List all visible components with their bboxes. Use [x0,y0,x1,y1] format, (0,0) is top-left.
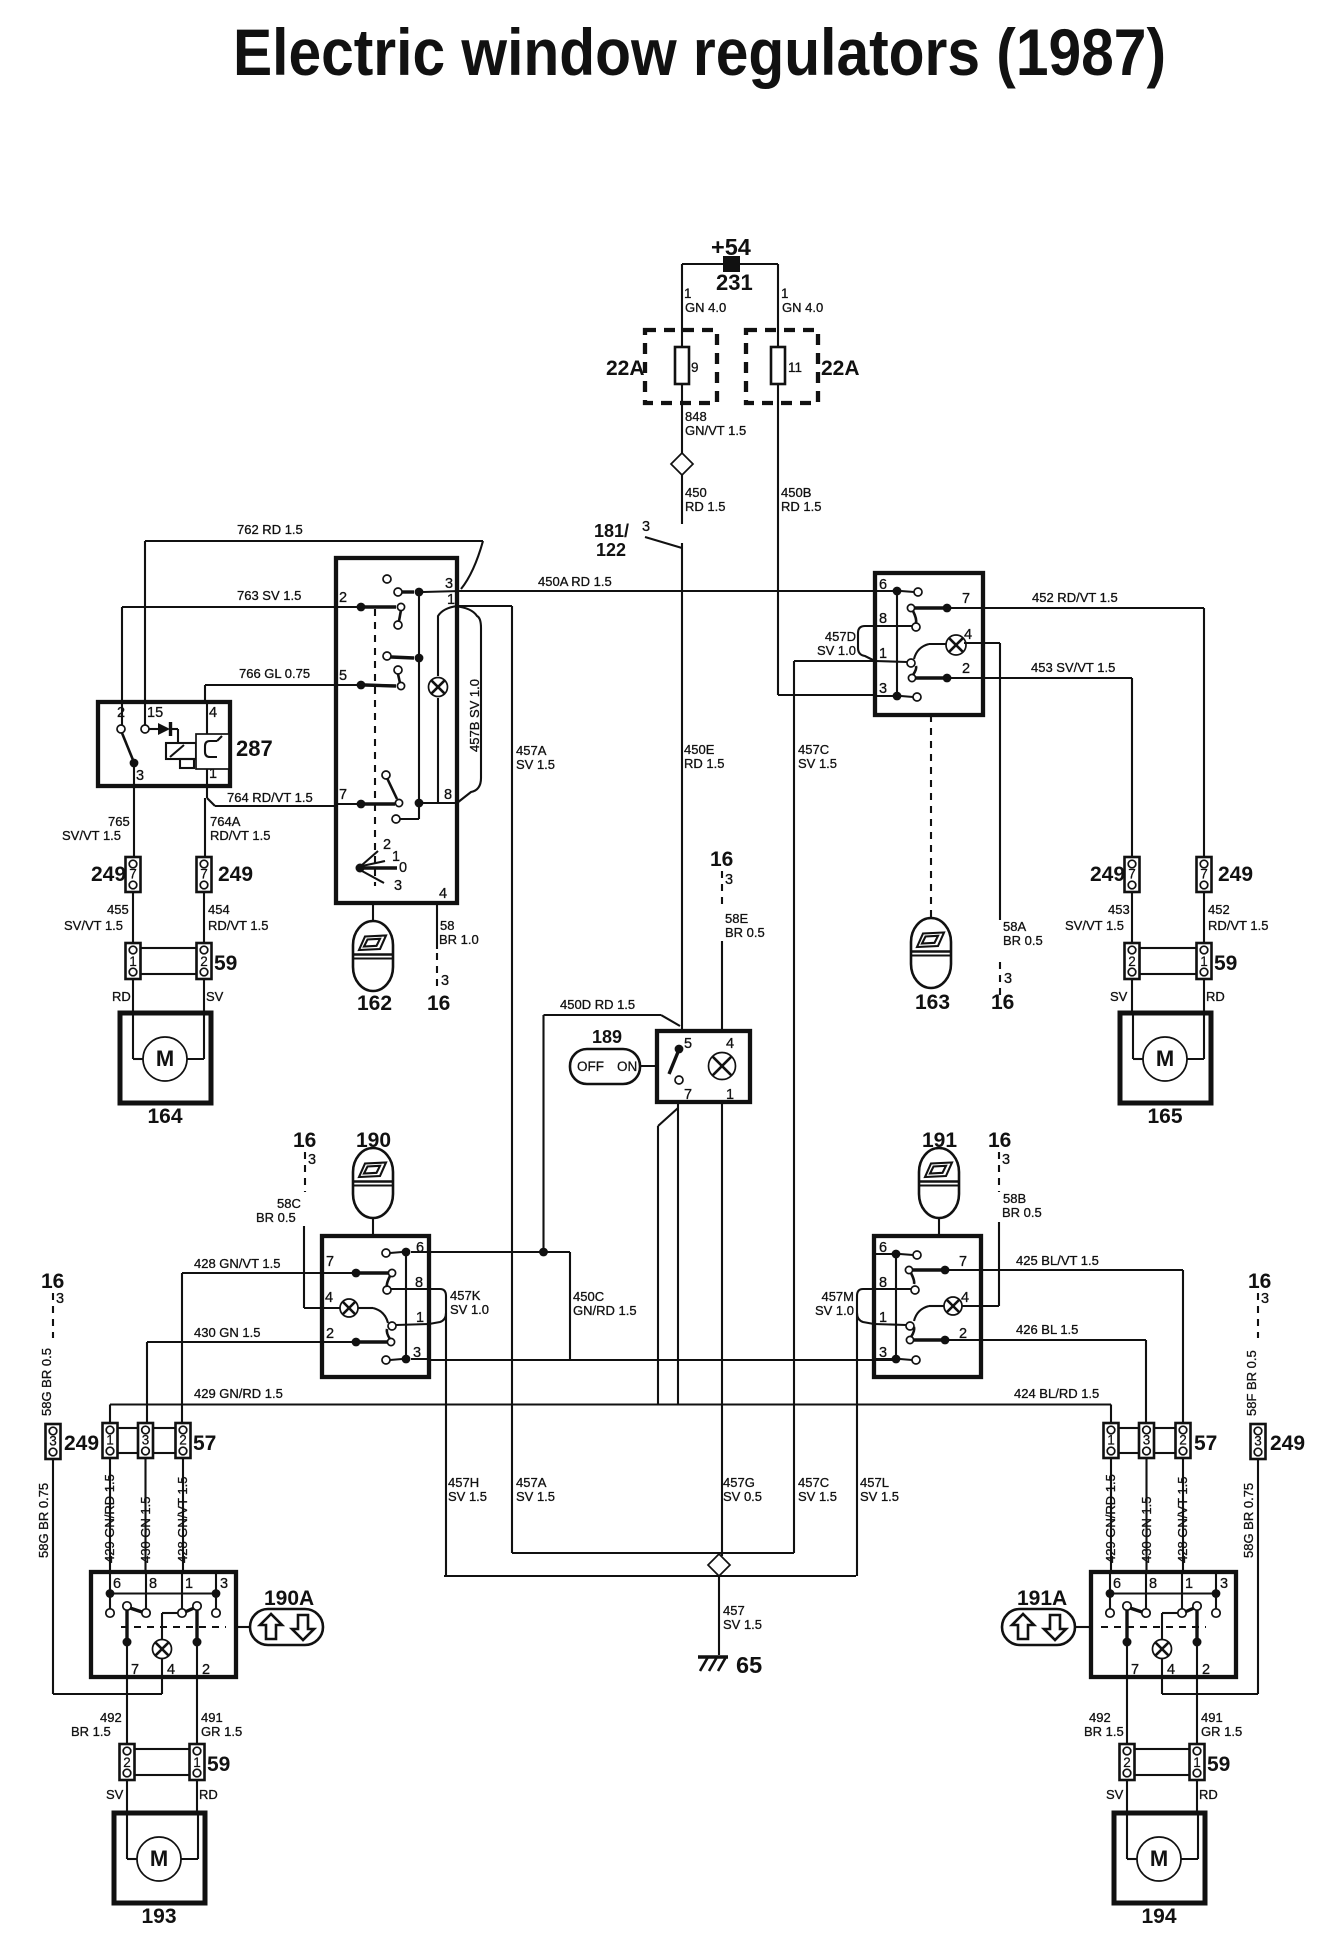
svg-text:491: 491 [201,1710,223,1725]
svg-text:22A: 22A [606,357,645,380]
switch 191 right rear window switch (front) [874,1236,981,1377]
svg-text:16: 16 [293,1129,316,1152]
ground bus horizontals [512,1552,794,1554]
svg-text:764 RD/VT 1.5: 764 RD/VT 1.5 [227,790,313,805]
svg-text:SV 1.5: SV 1.5 [723,1617,762,1632]
svg-text:3: 3 [725,872,733,888]
svg-text:SV 1.0: SV 1.0 [450,1302,489,1317]
svg-text:1: 1 [684,286,692,301]
wire 454 RD/VT 1.5 [203,892,205,943]
svg-text:3: 3 [441,973,449,989]
svg-text:122: 122 [596,540,626,560]
wire 492 BR 1.5 right [1126,1677,1128,1744]
wire 457G SV 0.5 [721,1102,723,1556]
svg-text:3: 3 [1004,971,1012,987]
svg-text:SV: SV [206,989,224,1004]
wire 429 GN/RD 1.5 to 190A [109,1458,111,1572]
svg-text:4: 4 [439,886,447,902]
svg-text:6: 6 [1113,1576,1121,1592]
svg-text:3: 3 [394,878,402,894]
up/down arrow capsule 191A [1075,1626,1091,1628]
mech link + window symbol capsule 163 [930,715,932,918]
svg-text:3: 3 [1254,1434,1262,1449]
svg-text:SV/VT 1.5: SV/VT 1.5 [1065,918,1124,933]
connector 249 left-b pin 7 [197,857,212,892]
svg-text:492: 492 [1089,1710,1111,1725]
svg-text:RD/VT 1.5: RD/VT 1.5 [210,828,270,843]
svg-text:GN 4.0: GN 4.0 [782,300,823,315]
svg-text:16: 16 [710,848,733,871]
up/down arrow capsule 190A [236,1626,251,1628]
svg-text:BR 0.5: BR 0.5 [725,925,765,940]
svg-text:249: 249 [64,1432,99,1455]
svg-text:191A: 191A [1017,1587,1067,1610]
svg-text:3: 3 [642,519,650,535]
wire 491 GR 1.5 right [1196,1677,1198,1744]
lamp in switch 190A [153,1640,172,1659]
svg-text:428 GN/VT 1.5: 428 GN/VT 1.5 [1175,1477,1190,1563]
svg-text:450: 450 [685,485,707,500]
svg-text:58E: 58E [725,911,748,926]
svg-text:765: 765 [108,814,130,829]
svg-text:249: 249 [91,863,126,886]
svg-text:RD/VT 1.5: RD/VT 1.5 [208,918,268,933]
connector 57 left pins 1,3,2 [103,1423,118,1458]
svg-text:M: M [156,1046,174,1071]
svg-text:457L: 457L [860,1475,889,1490]
svg-text:SV: SV [1106,1787,1124,1802]
svg-text:457K: 457K [450,1288,481,1303]
svg-text:8: 8 [444,787,452,803]
svg-text:5: 5 [339,668,347,684]
svg-text:59: 59 [1207,1753,1230,1776]
svg-text:58G BR 0.5: 58G BR 0.5 [39,1348,54,1416]
svg-text:429 GN/RD 1.5: 429 GN/RD 1.5 [102,1474,117,1563]
svg-text:6: 6 [113,1576,121,1592]
svg-text:2: 2 [383,837,391,853]
wire 428 GN/VT 1.5 to 190A [182,1458,184,1572]
wire RD to motor 194 [1196,1780,1198,1813]
ground 65 [698,1655,728,1658]
svg-text:SV 1.5: SV 1.5 [860,1489,899,1504]
svg-text:455: 455 [107,902,129,917]
wire 457L SV 1.5 [856,1313,858,1576]
svg-text:1: 1 [129,954,137,969]
connector diamond on ground wire 457 [708,1554,730,1576]
svg-text:7: 7 [1128,867,1136,882]
svg-text:3: 3 [1143,1433,1151,1448]
svg-text:RD 1.5: RD 1.5 [684,756,724,771]
svg-text:GN/RD 1.5: GN/RD 1.5 [573,1303,637,1318]
svg-text:457A: 457A [516,743,547,758]
wire 430 GN 1.5 to 191A [1145,1458,1147,1572]
svg-text:450E: 450E [684,742,715,757]
lamp in switch 191 [944,1297,962,1315]
svg-text:457B SV 1.0: 457B SV 1.0 [467,679,482,752]
svg-text:4: 4 [726,1036,734,1052]
wire 455 SV/VT 1.5 [132,892,134,943]
svg-text:RD/VT 1.5: RD/VT 1.5 [1208,918,1268,933]
svg-text:GN/VT 1.5: GN/VT 1.5 [685,423,746,438]
svg-text:58G BR 0.75: 58G BR 0.75 [1241,1483,1256,1558]
svg-text:16: 16 [1248,1270,1271,1293]
wire 450E RD 1.5 [681,543,683,1031]
svg-text:7: 7 [962,591,970,607]
svg-text:2: 2 [123,1755,131,1770]
svg-text:SV 1.0: SV 1.0 [817,643,856,658]
wire 763 SV 1.5 [122,606,336,608]
connector 249 left-a pin 7 [126,857,141,892]
svg-text:3: 3 [142,1433,150,1448]
wire 491 GR 1.5 left [196,1677,198,1744]
svg-text:457H: 457H [448,1475,479,1490]
connector 59 left-front [126,943,141,979]
svg-text:2: 2 [200,954,208,969]
svg-text:764A: 764A [210,814,241,829]
svg-text:4: 4 [209,705,217,721]
connector diamond on wire 848/450 [671,453,693,475]
svg-text:424 BL/RD 1.5: 424 BL/RD 1.5 [1014,1386,1099,1401]
svg-text:15: 15 [147,705,163,721]
wire 430 GN 1.5 [147,1341,322,1343]
svg-text:1: 1 [106,1433,114,1448]
svg-text:7: 7 [129,867,137,882]
svg-text:BR 1.0: BR 1.0 [439,932,479,947]
wire 452 RD/VT 1.5 lower [1203,892,1205,943]
mech link + window symbol capsule 191 [938,1218,940,1236]
svg-text:1: 1 [726,1087,734,1103]
connector 249 right-b pin 7 [1197,857,1212,892]
svg-text:16: 16 [991,991,1014,1014]
wire SV to motor 164 [203,979,205,1013]
svg-text:249: 249 [1270,1432,1305,1455]
wire 450B RD 1.5 [777,403,779,695]
connector 59 left-rear [120,1744,135,1780]
svg-text:492: 492 [100,1710,122,1725]
lamp in switch 190 [340,1299,358,1317]
rotary position indicator 0-1-2-3 in 162 [356,864,365,873]
wire lamp ground 191A to 58G [1161,1677,1163,1694]
svg-text:7: 7 [1200,867,1208,882]
svg-text:3: 3 [49,1434,57,1449]
svg-text:SV 1.5: SV 1.5 [448,1489,487,1504]
svg-text:2: 2 [1128,954,1136,969]
svg-text:428 GN/VT 1.5: 428 GN/VT 1.5 [175,1477,190,1563]
wire lamp ground 190A to 58G [161,1677,163,1694]
svg-text:57: 57 [1194,1432,1217,1455]
svg-text:450A RD 1.5: 450A RD 1.5 [538,574,612,589]
switch 163 passenger front window switch [875,573,983,715]
svg-text:M: M [1150,1846,1168,1871]
svg-text:429 GN/RD 1.5: 429 GN/RD 1.5 [194,1386,283,1401]
svg-text:249: 249 [218,863,253,886]
svg-text:7: 7 [1131,1662,1139,1678]
wire 492 BR 1.5 left [126,1677,128,1744]
svg-text:1: 1 [193,1755,201,1770]
svg-text:429 GN/RD 1.5: 429 GN/RD 1.5 [1103,1474,1118,1563]
svg-text:2: 2 [326,1326,334,1342]
svg-text:SV 1.5: SV 1.5 [798,756,837,771]
svg-text:287: 287 [236,736,273,761]
wire 457A SV 1.5 (from 162 pin 1) [457,605,512,607]
svg-text:1: 1 [185,1576,193,1592]
svg-text:58A: 58A [1003,919,1026,934]
svg-text:BR 1.5: BR 1.5 [71,1724,111,1739]
svg-text:190A: 190A [264,1587,314,1610]
svg-text:7: 7 [326,1254,334,1270]
svg-text:163: 163 [915,991,950,1014]
svg-text:452 RD/VT 1.5: 452 RD/VT 1.5 [1032,590,1118,605]
svg-text:4: 4 [167,1662,175,1678]
wire RD to motor 164 [132,979,134,1013]
svg-text:6: 6 [416,1240,424,1256]
switch 189 window lift cutoff switch [657,1031,750,1102]
svg-text:RD: RD [1199,1787,1218,1802]
svg-text:9: 9 [691,360,699,375]
svg-text:191: 191 [922,1129,957,1152]
svg-text:BR 0.5: BR 0.5 [256,1210,296,1225]
svg-text:SV 0.5: SV 0.5 [723,1489,762,1504]
svg-text:58F BR 0.5: 58F BR 0.5 [1244,1350,1259,1416]
svg-text:3: 3 [1261,1291,1269,1307]
svg-text:BR 0.5: BR 0.5 [1003,933,1043,948]
svg-text:457C: 457C [798,1475,829,1490]
wire 453 SV/VT 1.5 [983,677,1132,679]
wire 429 GN/RD 1.5 / 424 BL/RD 1.5 [110,1403,1111,1405]
svg-text:457M: 457M [821,1289,854,1304]
svg-text:SV 1.5: SV 1.5 [516,1489,555,1504]
svg-text:RD: RD [199,1787,218,1802]
svg-text:4: 4 [1167,1662,1175,1678]
svg-text:59: 59 [214,952,237,975]
mech link + window symbol capsule 162 [372,903,374,921]
wire 58 BR 1.0 [436,903,438,949]
wire 765 SV/VT 1.5 [133,786,135,857]
wire SV to motor 194 [1126,1780,1128,1813]
svg-text:2: 2 [962,661,970,677]
wire 430 GN 1.5 to 190A [144,1458,146,1572]
svg-text:425 BL/VT 1.5: 425 BL/VT 1.5 [1016,1253,1099,1268]
svg-text:450D RD 1.5: 450D RD 1.5 [560,997,635,1012]
svg-text:16: 16 [427,992,450,1015]
svg-text:GN 4.0: GN 4.0 [685,300,726,315]
connector 57 right pins 1,3,2 [1104,1423,1119,1458]
svg-text:164: 164 [147,1105,182,1128]
svg-text:0: 0 [399,860,407,876]
svg-text:848: 848 [685,409,707,424]
lamp in switch 191A [1153,1640,1172,1659]
svg-text:8: 8 [1149,1576,1157,1592]
svg-text:457G: 457G [723,1475,755,1490]
wire 425 BL/VT 1.5 [981,1269,1183,1271]
svg-text:426 BL 1.5: 426 BL 1.5 [1016,1322,1078,1337]
svg-text:450B: 450B [781,485,811,500]
svg-text:3: 3 [308,1152,316,1168]
svg-text:M: M [150,1846,168,1871]
svg-text:SV: SV [1110,989,1128,1004]
svg-text:2: 2 [179,1433,187,1448]
svg-text:165: 165 [1147,1105,1182,1128]
connector 249 right-a pin 7 [1125,857,1140,892]
lamp in switch 162 [429,678,448,697]
svg-text:457D: 457D [825,629,856,644]
wire 428 GN/VT 1.5 to 191A [1182,1458,1184,1572]
svg-text:2: 2 [202,1662,210,1678]
motor 165 right front window [1120,1013,1211,1103]
svg-text:193: 193 [141,1905,176,1928]
internal wire 457B SV 1.0 [438,606,457,676]
wire 848 GN/VT 1.5 [681,403,683,453]
svg-text:162: 162 [357,992,392,1015]
svg-text:58G BR 0.75: 58G BR 0.75 [36,1483,51,1558]
svg-text:65: 65 [736,1652,762,1678]
svg-text:2: 2 [1123,1755,1131,1770]
svg-text:7: 7 [959,1254,967,1270]
svg-text:59: 59 [1214,952,1237,975]
svg-text:7: 7 [684,1087,692,1103]
motor 164 left front window [120,1013,211,1103]
svg-text:OFF: OFF [577,1059,604,1074]
svg-text:453: 453 [1108,902,1130,917]
svg-text:763 SV 1.5: 763 SV 1.5 [237,588,301,603]
svg-text:58C: 58C [277,1196,301,1211]
wire from 189 pin 7 (457 ground feed) [677,1102,679,1405]
svg-text:RD 1.5: RD 1.5 [685,499,725,514]
svg-text:16: 16 [41,1270,64,1293]
lamp in switch 163 [946,635,966,655]
wire 764A RD/VT 1.5 [204,798,206,857]
wire 764 RD/VT 1.5 [206,786,208,798]
wire 429 GN/RD 1.5 to 191A [1110,1458,1112,1572]
svg-text:2: 2 [1202,1662,1210,1678]
wire 453 SV/VT 1.5 lower [1131,892,1133,943]
connector 249 left single pin 3 [46,1424,61,1459]
svg-text:SV 1.5: SV 1.5 [516,757,555,772]
svg-text:SV: SV [106,1787,124,1802]
svg-text:1: 1 [1185,1576,1193,1592]
wire 428 GN/VT 1.5 [182,1272,322,1274]
svg-text:57: 57 [193,1432,216,1455]
wire 426 BL 1.5 [981,1339,1146,1341]
wire GN 4.0 left [681,264,683,330]
svg-text:SV 1.0: SV 1.0 [815,1303,854,1318]
svg-text:GR 1.5: GR 1.5 [201,1724,242,1739]
svg-text:231: 231 [716,270,753,295]
svg-text:16: 16 [988,1129,1011,1152]
svg-text:2: 2 [339,590,347,606]
svg-text:RD: RD [112,989,131,1004]
svg-text:7: 7 [131,1662,139,1678]
internal wire 457D SV 1.0 [858,626,875,661]
wire SV to motor 165 [1131,979,1133,1013]
wire RD to motor 165 [1203,979,1205,1013]
svg-text:194: 194 [1141,1905,1176,1928]
svg-text:3: 3 [56,1291,64,1307]
fuse 9 22A [645,330,717,403]
svg-text:Electric window regulators (19: Electric window regulators (1987) [233,15,1166,89]
svg-text:249: 249 [1218,863,1253,886]
svg-text:ON: ON [617,1059,637,1074]
wire 58A BR 0.5 [983,642,1000,644]
svg-text:8: 8 [149,1576,157,1592]
wire 762 RD 1.5 [145,540,483,542]
connector 59 right-front [1125,943,1140,979]
svg-text:11: 11 [788,360,802,375]
svg-text:58: 58 [440,918,454,933]
svg-text:452: 452 [1208,902,1230,917]
svg-text:1: 1 [1107,1433,1115,1448]
svg-text:58B: 58B [1003,1191,1026,1206]
svg-text:1: 1 [879,646,887,662]
wire 450 RD 1.5 [681,475,683,524]
svg-text:SV/VT 1.5: SV/VT 1.5 [62,828,121,843]
svg-text:RD 1.5: RD 1.5 [781,499,821,514]
wire GN 4.0 right [777,264,779,330]
svg-text:1: 1 [1193,1755,1201,1770]
wire 450D RD 1.5 [544,1014,662,1016]
wire 452 RD/VT 1.5 [983,607,1204,609]
svg-text:BR 1.5: BR 1.5 [1084,1724,1124,1739]
internal wire 457K SV 1.0 [429,1289,446,1313]
switch 190A left rear door switch [91,1572,236,1677]
svg-text:454: 454 [208,902,230,917]
svg-text:4: 4 [325,1290,333,1306]
svg-text:457: 457 [723,1603,745,1618]
svg-text:457A: 457A [516,1475,547,1490]
svg-text:457C: 457C [798,742,829,757]
lamp in switch 189 [709,1053,736,1080]
motor 193 left rear window [114,1813,205,1903]
svg-text:3: 3 [445,576,453,592]
svg-text:1: 1 [781,286,789,301]
svg-text:430 GN 1.5: 430 GN 1.5 [1139,1497,1154,1564]
mech link + window symbol capsule 190 [372,1218,374,1236]
svg-text:SV 1.5: SV 1.5 [798,1489,837,1504]
switch 162 driver master switch [336,558,457,903]
svg-text:2: 2 [1179,1433,1187,1448]
wire 457 SV 1.5 [718,1576,720,1655]
svg-text:3: 3 [879,681,887,697]
svg-text:181/: 181/ [594,521,629,541]
fuse 11 22A [746,330,818,403]
svg-text:M: M [1156,1046,1174,1071]
svg-text:189: 189 [592,1027,622,1047]
svg-text:22A: 22A [821,357,860,380]
switch 191A right rear door switch [1091,1572,1236,1677]
svg-text:762 RD 1.5: 762 RD 1.5 [237,522,303,537]
wire SV to motor 193 [126,1780,128,1813]
svg-text:766 GL 0.75: 766 GL 0.75 [239,666,310,681]
svg-text:450C: 450C [573,1289,604,1304]
svg-text:3: 3 [1002,1152,1010,1168]
switch 190 left rear window switch (front) [322,1236,429,1377]
wire 457H SV 1.5 [445,1313,447,1576]
svg-text:430 GN 1.5: 430 GN 1.5 [138,1497,153,1564]
svg-text:RD: RD [1206,989,1225,1004]
svg-text:453 SV/VT 1.5: 453 SV/VT 1.5 [1031,660,1115,675]
svg-text:8: 8 [879,611,887,627]
svg-text:59: 59 [207,1753,230,1776]
svg-text:GR 1.5: GR 1.5 [1201,1724,1242,1739]
connector 59 right-rear [1120,1744,1135,1780]
svg-text:7: 7 [200,867,208,882]
svg-text:7: 7 [339,787,347,803]
svg-text:3: 3 [136,768,144,784]
wire 457C SV 1.5 [794,660,875,662]
svg-text:BR 0.5: BR 0.5 [1002,1205,1042,1220]
svg-text:249: 249 [1090,863,1125,886]
svg-text:1: 1 [1200,954,1208,969]
